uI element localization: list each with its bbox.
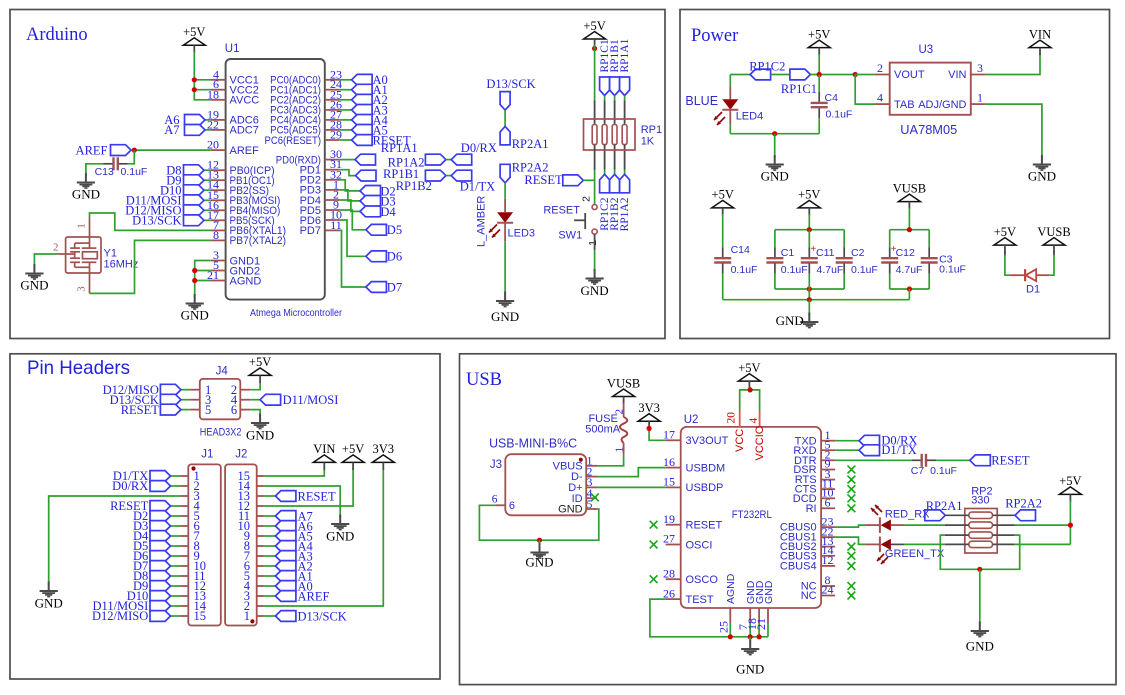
wire VCC loop to +5V — [740, 390, 760, 411]
U2 pin 26 TEST — [663, 586, 714, 606]
svg-text:19: 19 — [663, 512, 675, 526]
J3 pin 2 D- — [571, 466, 597, 483]
wire A7 J2 — [264, 515, 276, 517]
U2 pin 21 GND — [754, 580, 775, 637]
svg-text:RESET: RESET — [121, 403, 160, 417]
U1 pin 10 PD6 — [300, 208, 342, 227]
J1 pin 2 — [181, 479, 200, 493]
svg-text:3V3: 3V3 — [373, 442, 395, 456]
RED_RX light arrows — [871, 508, 878, 515]
net flag A4 — [352, 115, 373, 126]
U1 pin 13 PB1(OC1) — [207, 168, 275, 187]
U2 pin 10 DCD — [793, 486, 835, 505]
net flag D11/MOSI (J1) — [150, 601, 171, 612]
junction GND2 — [192, 268, 197, 273]
wire pair1 — [446, 159, 451, 161]
svg-text:C12: C12 — [896, 247, 915, 259]
svg-text:Atmega Microcontroller: Atmega Microcontroller — [250, 307, 342, 319]
svg-text:4.7uF: 4.7uF — [817, 264, 844, 276]
svg-text:FT232RL: FT232RL — [732, 509, 772, 521]
J1 pin 15 — [181, 609, 207, 623]
no-connect CBUS4 — [848, 562, 856, 570]
wire A3 J2 — [264, 555, 276, 557]
svg-text:J4: J4 — [216, 366, 229, 378]
no-connect RTS — [848, 476, 856, 484]
U1 pin 26 PC3(ADC3) — [270, 97, 342, 116]
resistor network RP1 box — [584, 119, 636, 150]
no-connect ID — [591, 494, 599, 502]
wire A5 J2 — [264, 535, 276, 537]
svg-text:TAB: TAB — [894, 99, 915, 111]
net flag D13/SCK (vert) — [500, 92, 510, 111]
crystal Y1 16MHz — [53, 219, 138, 293]
wire TEST to ground rail — [650, 599, 768, 637]
J2 pin 1 — [244, 609, 264, 623]
J1 pin 14 — [181, 599, 207, 613]
svg-text:C7: C7 — [911, 465, 925, 477]
wire to GND — [774, 134, 776, 158]
net flag D9 (J1) — [150, 581, 171, 592]
net flag D4 (J1) — [150, 531, 171, 542]
J1 pin 12 — [181, 579, 207, 593]
no-connect RESET — [650, 521, 658, 529]
ground (J2) — [326, 515, 354, 544]
junction VCC — [748, 387, 753, 392]
wire AREF J2 — [264, 595, 276, 597]
U2 pin 7 GND — [736, 580, 757, 637]
wire D13/SCK J2 — [264, 615, 276, 617]
wire to GND — [979, 569, 981, 626]
wire D4 J1 — [171, 535, 181, 537]
svg-text:GND: GND — [581, 283, 609, 298]
U2 pin 13 CBUS2 — [780, 534, 835, 553]
svg-text:VUSB: VUSB — [893, 181, 926, 195]
svg-text:5: 5 — [205, 403, 211, 417]
wire CBUS1 to LED — [835, 537, 865, 544]
svg-text:ADC7: ADC7 — [230, 125, 259, 137]
J2 pin 6 — [244, 559, 264, 573]
no-connect NC — [848, 592, 856, 600]
net flag D13/SCK (J4) — [160, 394, 181, 405]
net flag A7 — [185, 125, 206, 136]
svg-text:AREF: AREF — [76, 144, 108, 158]
wire RP1A1 to RP1 — [624, 96, 626, 101]
svg-text:A7: A7 — [164, 123, 179, 137]
svg-text:D1/TX: D1/TX — [460, 179, 495, 193]
net flag A7 (J2) — [275, 511, 296, 522]
J1 pin 8 — [181, 539, 200, 553]
U1 pin 25 PC2(ADC2) — [270, 87, 342, 106]
J2 pin 7 — [244, 549, 264, 563]
svg-text:UA78M05: UA78M05 — [900, 122, 957, 137]
svg-text:D0/RX: D0/RX — [461, 141, 497, 155]
wire D13/SCK-RP2A1 — [504, 110, 506, 126]
svg-text:RP1A1: RP1A1 — [381, 141, 418, 155]
capacitor C4 — [818, 92, 820, 102]
net flag RP1A1 — [355, 154, 376, 165]
svg-text:PB7(XTAL2): PB7(XTAL2) — [230, 235, 287, 247]
svg-text:28: 28 — [663, 566, 675, 580]
net flag AREF — [111, 145, 132, 156]
net flag D8 (J1) — [150, 571, 171, 582]
net flag RESET — [352, 135, 373, 146]
frame: Power section — [680, 10, 1110, 339]
net flag A2 — [352, 94, 373, 105]
ground (J4) — [246, 414, 274, 443]
wire ADJ/GND to ground — [986, 104, 1042, 158]
net flag A4 (J2) — [275, 541, 296, 552]
wire C4 top — [818, 75, 820, 93]
svg-text:17: 17 — [663, 428, 675, 442]
wire to GND — [539, 540, 541, 548]
net flag D10 (J1) — [150, 591, 171, 602]
wire cap group2 rails — [908, 208, 910, 230]
capacitor C12 — [881, 230, 898, 289]
net flag RP1C1 — [790, 69, 811, 80]
svg-text:RESET: RESET — [543, 205, 580, 217]
junction group2 bottom — [907, 286, 912, 291]
net flag RP1A1 — [620, 77, 630, 96]
wire A0 J2 — [264, 585, 276, 587]
svg-text:TEST: TEST — [686, 594, 714, 606]
net flag D3 — [360, 196, 381, 207]
wire CBUS0 to LED — [835, 525, 865, 527]
header J4 — [200, 379, 241, 419]
wire +5V to VCC1/VCC2/AVCC — [194, 51, 210, 100]
power VUSB (caps) — [893, 181, 926, 209]
wire D10 J1 — [171, 595, 181, 597]
svg-text:C11: C11 — [816, 247, 835, 259]
wire group2 stem — [908, 289, 910, 300]
wire RP2 row3 loop — [945, 534, 969, 536]
ground (J3) — [525, 543, 553, 570]
svg-text:GND: GND — [966, 639, 994, 654]
svg-text:GREEN_TX: GREEN_TX — [885, 548, 945, 560]
svg-text:SW1: SW1 — [558, 229, 582, 241]
svg-text:USB-MINI-B%C: USB-MINI-B%C — [489, 436, 577, 451]
U2 pin 2 DTR — [794, 448, 835, 467]
svg-text:1: 1 — [587, 240, 599, 246]
svg-text:6: 6 — [231, 403, 237, 417]
svg-text:+5V: +5V — [183, 25, 205, 39]
svg-text:AVCC: AVCC — [230, 95, 260, 107]
U1 pin 22 ADC7 — [207, 117, 259, 136]
wire J2 pin15 to VIN — [264, 468, 324, 476]
ground (U2) — [736, 640, 764, 677]
J2 pin 10 — [238, 519, 264, 533]
wire RP1C1 to RP1 — [604, 96, 606, 101]
svg-text:26: 26 — [663, 586, 675, 600]
net flag D5 (J1) — [150, 541, 171, 552]
power 3V3 (U2) — [638, 401, 660, 429]
svg-text:16MHz: 16MHz — [104, 258, 139, 270]
frame: Arduino section — [10, 10, 665, 339]
U1 pin 7 PB6(XTAL1) — [211, 218, 286, 237]
svg-text:VIN: VIN — [948, 69, 966, 81]
J4 pins 1/2 — [190, 383, 250, 397]
J4 pins 3/4 — [190, 393, 250, 407]
no-connect DSR — [848, 466, 856, 474]
svg-text:15: 15 — [663, 475, 675, 489]
power +5V (RP1) — [583, 19, 605, 47]
svg-text:D13/SCK: D13/SCK — [486, 77, 535, 91]
wire D0/RX J1 — [171, 485, 181, 487]
junction AREF — [132, 148, 137, 153]
svg-text:LED4: LED4 — [736, 110, 764, 122]
net flag D5 — [366, 224, 387, 235]
regulator U3 — [890, 63, 971, 115]
U3 pin 2 VOUT — [875, 74, 890, 76]
wire DTR to C7 — [835, 459, 912, 461]
wire RP1A1 — [340, 159, 355, 161]
U1 pin 17 PB5(SCK) — [207, 208, 275, 227]
net flag A6 — [185, 115, 206, 126]
U2 pin 20 VCC — [726, 411, 747, 453]
svg-text:RESET: RESET — [524, 173, 563, 187]
U1 pin 24 PC1(ADC1) — [270, 77, 342, 96]
svg-text:C14: C14 — [731, 244, 750, 256]
svg-text:RP1A1: RP1A1 — [619, 38, 631, 72]
U2 pin 12 CBUS4 — [780, 553, 835, 572]
LED LED4 — [722, 99, 738, 110]
svg-text:C2: C2 — [851, 247, 865, 259]
U2 pin 8 NC — [801, 573, 835, 592]
no-connect OSCI — [650, 541, 658, 549]
svg-text:VOUT: VOUT — [894, 69, 925, 81]
J1 pin 7 — [181, 529, 200, 543]
wire A4 J2 — [264, 545, 276, 547]
wire VIN net — [986, 54, 1040, 75]
U1 pin 32 PD2 — [300, 167, 342, 186]
svg-text:RED_RX: RED_RX — [885, 509, 930, 521]
GREEN_TX light arrows — [877, 554, 884, 561]
svg-text:D0/RX: D0/RX — [112, 479, 148, 493]
J2 pin1 marker — [250, 619, 254, 623]
net flag D10 — [184, 185, 205, 196]
svg-text:0.1uF: 0.1uF — [826, 109, 853, 121]
U1 pin 27 PC4(ADC4) — [270, 107, 342, 126]
wire D- to USBDM — [597, 468, 666, 477]
net flag D13/SCK — [184, 215, 205, 226]
svg-text:21: 21 — [754, 618, 768, 630]
net flag D0/RX (J1) — [150, 481, 171, 492]
svg-text:USB: USB — [466, 370, 502, 390]
U1 pin 16 PB4(MISO) — [207, 198, 280, 217]
net flag RP2A2 (vert) — [500, 164, 510, 183]
junction row3 ground — [977, 567, 982, 572]
net flag RP1B2 — [610, 174, 620, 193]
svg-text:20: 20 — [726, 412, 738, 424]
junction VCC1 — [192, 77, 197, 82]
wire — [810, 74, 855, 76]
LED RED_RX — [879, 517, 881, 533]
svg-text:500mA: 500mA — [585, 424, 621, 436]
no-connect CTS — [848, 485, 856, 493]
resistor network RP2 box — [965, 509, 997, 554]
wire TXD to D0/RX — [835, 440, 859, 442]
wire Y1 pin3 to PB7/XTAL2 — [90, 240, 211, 293]
switch SW1 — [543, 196, 598, 246]
junction row2 — [1068, 523, 1073, 528]
J3 pin 3 D+ — [568, 477, 597, 494]
wire ground rail — [723, 299, 910, 301]
net flag RESET (J1) — [150, 501, 171, 512]
wire RP1 col1 to SW1 — [594, 145, 596, 170]
svg-text:GND: GND — [736, 662, 764, 677]
wire A4 — [340, 119, 352, 121]
svg-text:GND: GND — [491, 309, 519, 324]
junction GND18 — [757, 634, 762, 639]
svg-text:1: 1 — [77, 223, 88, 228]
wire D12/MISO — [204, 209, 211, 211]
wire J2 pin12 to +5V — [264, 468, 353, 506]
no-connect OSCO — [650, 575, 658, 583]
J2 pin 11 — [238, 509, 264, 523]
U1 pin 19 ADC6 — [207, 107, 259, 126]
wire A2 — [340, 99, 352, 101]
svg-text:6: 6 — [825, 496, 831, 510]
wire D3 — [340, 190, 360, 201]
svg-text:+5V: +5V — [994, 225, 1016, 239]
net flag RESET (J4) — [160, 404, 181, 415]
svg-text:J3: J3 — [490, 459, 502, 471]
frame: USB section — [460, 354, 1117, 685]
net flag D11/MOSI (J4) — [260, 394, 281, 405]
svg-text:4.7uF: 4.7uF — [896, 264, 923, 276]
ground (cap bank) — [776, 313, 819, 329]
capacitor C1 — [766, 230, 783, 289]
svg-text:VUSB: VUSB — [1037, 225, 1070, 239]
wire A6 J2 — [264, 525, 276, 527]
svg-text:24: 24 — [822, 583, 834, 597]
svg-text:AGND: AGND — [725, 573, 737, 604]
ic U2 FT232RL — [681, 427, 821, 608]
svg-text:1: 1 — [977, 91, 983, 105]
U2 pin 1 TXD — [795, 428, 836, 447]
diode D1 — [1010, 269, 1049, 281]
junction rail — [807, 297, 812, 302]
wire RP1 to RP1C2 — [604, 145, 606, 170]
svg-text:C1: C1 — [781, 247, 795, 259]
svg-text:GND: GND — [1028, 169, 1056, 184]
J3 pin 1 VBUS — [553, 456, 597, 473]
U2 pin 24 NC — [801, 583, 835, 602]
svg-text:12: 12 — [822, 553, 834, 567]
svg-text:GND: GND — [246, 428, 274, 443]
J1 pin 10 — [181, 559, 207, 573]
LED LED3 — [497, 212, 513, 223]
net flag D2 (J1) — [150, 511, 171, 522]
svg-text:VCCIO: VCCIO — [754, 425, 766, 460]
power +5V (C14) — [712, 188, 734, 216]
net flag RP1B1 — [610, 77, 620, 96]
svg-text:VUSB: VUSB — [607, 376, 640, 390]
junction 3V3 — [647, 426, 652, 431]
svg-text:CBUS4: CBUS4 — [780, 561, 817, 573]
LED4 branch — [729, 75, 731, 87]
junction VOUT node — [853, 72, 858, 77]
svg-text:GND: GND — [326, 529, 354, 544]
wire RP2A2 to LED3 — [504, 183, 506, 199]
net flag A5 — [352, 125, 373, 136]
wire GND pins to ground — [195, 261, 211, 298]
J3 pin1 marker dot — [579, 458, 583, 462]
svg-text:25: 25 — [716, 621, 730, 633]
U2 pin 6 RI — [806, 496, 836, 515]
svg-text:D13/SCK: D13/SCK — [132, 214, 181, 228]
J1 pin 4 — [181, 499, 201, 513]
J2 pin 9 — [244, 529, 264, 543]
wire RESET to SW1 — [583, 179, 594, 181]
wire D5 — [340, 210, 366, 230]
J1 pin 5 — [181, 509, 200, 523]
wire RESET — [340, 139, 352, 141]
svg-text:AREF: AREF — [298, 589, 330, 603]
power +5V (J4) — [249, 355, 271, 383]
wire RP1 to RP1B2 — [614, 145, 616, 170]
net flag A0 — [352, 74, 373, 85]
net flag D12/MISO — [184, 205, 205, 216]
svg-text:6: 6 — [509, 500, 515, 512]
wire 3V3 to 3V3OUT — [649, 427, 666, 440]
svg-text:U3: U3 — [919, 44, 934, 56]
net flag A3 (J2) — [275, 551, 296, 562]
wire LED3 to GND — [504, 223, 506, 241]
J3 pin 5 GND — [558, 499, 597, 516]
wire A1 J2 — [264, 575, 276, 577]
J1 pin 6 — [181, 519, 200, 533]
power VIN — [1029, 27, 1051, 55]
net flag A1 — [352, 84, 373, 95]
U1 pin 21 AGND — [207, 268, 261, 287]
J3 pin 4 ID — [572, 488, 597, 505]
LED GREEN_TX — [879, 537, 881, 553]
svg-text:8: 8 — [213, 228, 219, 242]
junction +5V/top rail — [817, 72, 822, 77]
svg-text:1: 1 — [244, 609, 250, 623]
U1 pin 20 AREF — [207, 138, 259, 157]
svg-text:RP1A2: RP1A2 — [619, 197, 631, 231]
wire RESET J2 — [264, 495, 276, 497]
header J2 — [225, 464, 257, 625]
svg-text:GND: GND — [776, 313, 804, 328]
U1 pin 31 PD1 — [300, 157, 342, 176]
J1 pin 3 — [181, 489, 200, 503]
U1 pin 18 AVCC — [207, 87, 259, 106]
wire top rail LED4 to U3 — [730, 74, 750, 76]
op-amp U1 Atmega box — [226, 59, 325, 300]
wire D1 to VUSB — [1053, 251, 1055, 256]
svg-text:0.1uF: 0.1uF — [851, 264, 878, 276]
svg-text:GND: GND — [763, 580, 775, 604]
net flag RP2A2 (USB) — [1015, 510, 1036, 521]
connector J3 — [505, 454, 586, 515]
svg-text:+5V: +5V — [712, 188, 734, 202]
svg-text:3: 3 — [77, 286, 88, 291]
wire bottom rail LED4/C4 — [730, 133, 819, 135]
J2 pin 4 — [244, 579, 264, 593]
wire D6 J1 — [171, 555, 181, 557]
fuse FUSE 500mA — [585, 403, 627, 455]
J1 pin1 marker — [191, 466, 195, 470]
svg-text:Power: Power — [691, 26, 738, 46]
wire AREF — [134, 149, 210, 151]
ground (LED3) — [491, 292, 519, 325]
capacitor C13 — [104, 163, 113, 165]
svg-text:16: 16 — [663, 455, 675, 469]
power VUSB (fuse) — [607, 376, 640, 404]
net flag D3 (J1) — [150, 521, 171, 532]
